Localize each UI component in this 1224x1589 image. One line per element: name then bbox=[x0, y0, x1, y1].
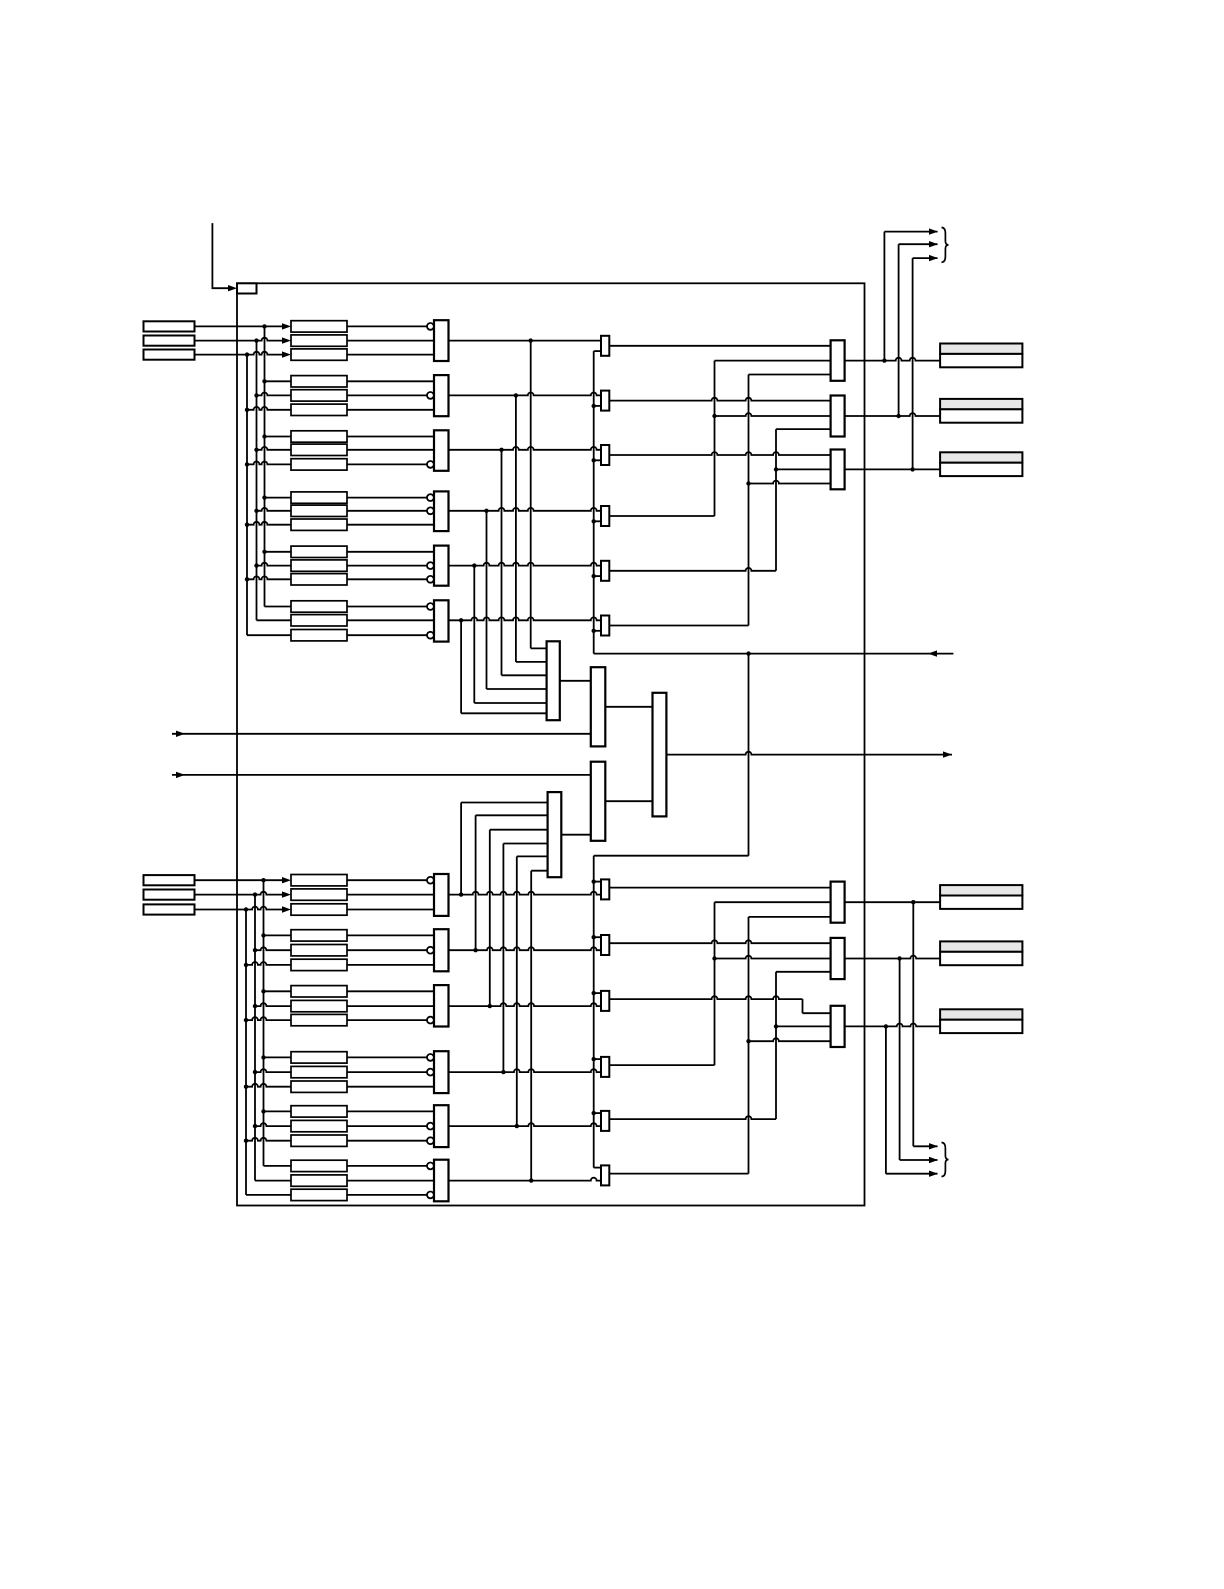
delay box TG2.3 bbox=[291, 404, 347, 415]
input label box T2 bbox=[144, 336, 195, 346]
collector line B1 bbox=[460, 803, 462, 895]
wire common stub B1 bbox=[594, 881, 601, 883]
wire jog down bbox=[802, 999, 804, 1013]
wire BG5 in1 bbox=[347, 1110, 434, 1112]
arrowhead brace B2 bbox=[929, 1157, 938, 1163]
vertical V3 T bbox=[775, 429, 777, 571]
junction common T3 bbox=[592, 458, 596, 462]
wire BG3 in2 bbox=[347, 1005, 434, 1007]
wire common stub T1 bbox=[594, 350, 601, 352]
mux box C3 bbox=[653, 693, 667, 817]
wire BG4 in3 bbox=[347, 1086, 434, 1088]
junction TG1 collector bbox=[529, 338, 533, 342]
wire BS2 out bbox=[609, 940, 830, 943]
wire bus1 to TG4 input1 bbox=[265, 497, 292, 499]
wire V2 to R.in3 T bbox=[749, 374, 831, 376]
arrowhead brace T3 bbox=[929, 255, 938, 261]
delay box TG2.1 bbox=[291, 376, 347, 387]
wire collector B1 stair bbox=[461, 802, 547, 804]
output label BL2 white bbox=[940, 952, 1022, 965]
collector line T1 bbox=[530, 341, 532, 649]
wire common stub T6 bbox=[594, 630, 601, 632]
output label BL2 gray bbox=[940, 941, 1022, 951]
output label TL3 white bbox=[940, 463, 1022, 476]
wire C2 out bbox=[605, 706, 652, 708]
driver box BR1 bbox=[831, 882, 845, 923]
arrowhead common in bbox=[928, 650, 937, 656]
wire BG5 in3 bbox=[347, 1140, 427, 1142]
wire TG6 in2 bbox=[347, 619, 434, 621]
wire BG1 in3 bbox=[347, 909, 434, 911]
gate BU3 bbox=[434, 985, 449, 1026]
arrowhead brace T2 bbox=[929, 241, 938, 247]
junction bus1 BG3 bbox=[261, 989, 265, 993]
vertical V2 T bbox=[748, 375, 750, 626]
delay box BG6.2 bbox=[291, 1175, 347, 1186]
input label box B1 bbox=[144, 875, 195, 885]
wire collector B2 stair bbox=[476, 814, 548, 816]
wire BG5 in2 bbox=[347, 1125, 427, 1127]
delay box BG2.1 bbox=[291, 930, 347, 941]
wire input T2 to first group bbox=[195, 338, 283, 341]
junction BG2 collector bbox=[473, 948, 477, 952]
bus line B3 bbox=[245, 910, 247, 1195]
junction common T4 bbox=[592, 519, 596, 523]
delay box BG4.1 bbox=[291, 1052, 347, 1063]
wire bus3 to TG3 input3 bbox=[247, 462, 291, 465]
gate BU6 bbox=[434, 1160, 449, 1202]
wire TG3 in3 bbox=[347, 463, 427, 465]
bus line B1 bbox=[263, 880, 265, 1166]
delay box BG3.2 bbox=[291, 1000, 347, 1011]
wire TG2 in2 bbox=[347, 394, 427, 396]
delay box TG3.3 bbox=[291, 459, 347, 470]
wire C1 out bbox=[560, 680, 591, 682]
bus line T3 bbox=[246, 355, 248, 636]
junction B3-bus bbox=[244, 907, 248, 911]
inverter bubble TG1.1 bbox=[427, 323, 434, 330]
gate TU4 bbox=[434, 491, 449, 531]
combiner box TS6 bbox=[601, 616, 609, 636]
inverter bubble BG4.2 bbox=[427, 1069, 434, 1076]
wire C5 out bbox=[561, 834, 591, 836]
gate BU5 bbox=[434, 1105, 449, 1147]
junction TG2 collector bbox=[514, 393, 518, 397]
junction V2 branch B bbox=[746, 1039, 750, 1043]
junction common T2 bbox=[592, 404, 596, 408]
wire TS6 out bbox=[609, 625, 748, 627]
junction bus1 BG5 bbox=[261, 1109, 265, 1113]
wire V3 branch T bbox=[776, 468, 831, 470]
wire BG4 in1 bbox=[347, 1056, 427, 1058]
wire BS4 out bbox=[609, 1064, 714, 1066]
junction bus1 BG2 bbox=[261, 933, 265, 937]
combiner box BS4 bbox=[601, 1057, 609, 1077]
junction bus1 TG5 bbox=[262, 550, 266, 554]
wire common stub B5 bbox=[594, 1112, 601, 1114]
brace drop B3 bbox=[885, 1026, 887, 1173]
delay box TG5.1 bbox=[291, 546, 347, 557]
junction BR2 tap bbox=[897, 956, 901, 960]
wire TG6 in3 bbox=[347, 634, 427, 636]
junction T3-bus bbox=[245, 352, 249, 356]
wire V3 to R.in3 B bbox=[776, 971, 831, 973]
wire input B1 to first group bbox=[195, 879, 283, 881]
wire bus3 to BG4 input3 bbox=[246, 1084, 291, 1087]
junction TG4 collector bbox=[484, 509, 488, 513]
wire TS1 out bbox=[609, 345, 830, 347]
driver box TR2 bbox=[831, 396, 845, 437]
junction TG5 collector bbox=[472, 563, 476, 567]
junction T1-bus bbox=[262, 324, 266, 328]
wire bus2 to TG3 input2 bbox=[257, 447, 292, 450]
driver box BR2 bbox=[831, 938, 845, 979]
collector line B2 bbox=[475, 815, 477, 950]
collector line B3 bbox=[489, 830, 491, 1006]
wire collector T3 stair bbox=[502, 674, 547, 676]
delay box BG5.3 bbox=[291, 1135, 347, 1146]
junction bus3 BG2 bbox=[244, 963, 248, 967]
wire bus1 to BG2 input1 bbox=[264, 934, 292, 936]
combiner box BS1 bbox=[601, 879, 609, 899]
junction V1 branch B bbox=[712, 956, 716, 960]
wire TG2 in1 bbox=[347, 380, 434, 382]
wire BG6 in1 bbox=[347, 1165, 427, 1167]
wire BG1 in2 bbox=[347, 894, 434, 896]
vertical V1 B bbox=[714, 902, 716, 1065]
output label BL3 white bbox=[940, 1020, 1022, 1033]
mux box C4 bbox=[591, 762, 606, 841]
junction V2 branch T bbox=[746, 481, 750, 485]
junction bus1 TG4 bbox=[262, 495, 266, 499]
combiner box TS2 bbox=[601, 391, 609, 411]
delay box TG6.1 bbox=[291, 601, 347, 612]
junction BR3 tap bbox=[884, 1024, 888, 1028]
wire collector T6 stair bbox=[461, 712, 546, 714]
arrowhead control 2 bbox=[176, 772, 185, 778]
wire V1 branch T bbox=[715, 413, 831, 416]
mux box C5 bbox=[548, 792, 562, 877]
wire V3 branch B bbox=[776, 1025, 831, 1027]
wire TR2 output bbox=[845, 413, 941, 416]
junction bus2 BG2 bbox=[253, 948, 257, 952]
corner tag box bbox=[237, 283, 257, 293]
wire common stub T4 bbox=[594, 520, 601, 522]
wire BG4 output bbox=[449, 1069, 602, 1072]
input label box T1 bbox=[144, 321, 195, 331]
collector line B4 bbox=[502, 844, 504, 1073]
junction bus2 TG4 bbox=[254, 509, 258, 513]
wire bus3 to BG6 input3 bbox=[246, 1194, 291, 1196]
wire TG5 in2 bbox=[347, 565, 427, 567]
delay box TG1.3 bbox=[291, 349, 347, 360]
wire bus1 to BG3 input1 bbox=[264, 990, 292, 992]
brace drop B2 bbox=[899, 959, 901, 1161]
junction bus3 TG4 bbox=[245, 523, 249, 527]
junction BG6 collector bbox=[529, 1178, 533, 1182]
inverter bubble BG4.1 bbox=[427, 1054, 434, 1061]
wire common stub T5 bbox=[594, 575, 601, 577]
wire brace T2 bbox=[899, 243, 938, 245]
wire bus2 to BG4 input2 bbox=[255, 1069, 291, 1072]
junction bus2 BG4 bbox=[253, 1070, 257, 1074]
wire bus3 to TG2 input3 bbox=[247, 407, 291, 410]
wire brace B3 bbox=[886, 1173, 938, 1175]
delay box BG1.3 bbox=[291, 904, 347, 915]
wire BG1 in1 bbox=[347, 879, 427, 881]
junction bus3 BG5 bbox=[244, 1139, 248, 1143]
arrowhead brace T1 bbox=[929, 228, 938, 234]
wire bus2 to TG6 input2 bbox=[257, 619, 292, 621]
delay box TG5.2 bbox=[291, 560, 347, 571]
arrowhead T1 bbox=[282, 323, 291, 329]
junction TG6 collector bbox=[459, 618, 463, 622]
delay box TG2.2 bbox=[291, 390, 347, 401]
driver box TR1 bbox=[831, 340, 845, 381]
collector line T4 bbox=[486, 511, 488, 689]
wire bus3 to BG3 input3 bbox=[246, 1017, 291, 1020]
junction bus2 TG3 bbox=[254, 448, 258, 452]
junction bus1 TG2 bbox=[262, 379, 266, 383]
delay box TG4.2 bbox=[291, 505, 347, 516]
wire TS3 out bbox=[609, 452, 830, 455]
wire input T3 to first group bbox=[195, 352, 283, 355]
gate TU1 bbox=[434, 320, 449, 361]
input label box B3 bbox=[144, 904, 195, 914]
wire BG5 output bbox=[449, 1123, 602, 1126]
combiner box TS1 bbox=[601, 336, 609, 356]
wire bus2 to BG3 input2 bbox=[255, 1003, 291, 1006]
wire TS4 out bbox=[609, 515, 714, 517]
gate TU3 bbox=[434, 430, 449, 471]
junction bus2 BG5 bbox=[253, 1124, 257, 1128]
input label box B2 bbox=[144, 890, 195, 900]
delay box TG3.2 bbox=[291, 444, 347, 455]
wire bus1 to TG5 input1 bbox=[265, 551, 292, 553]
collector line T6 bbox=[460, 620, 462, 713]
collector line B5 bbox=[516, 856, 518, 1126]
junction TR1 tap bbox=[882, 358, 886, 362]
wire TG5 output bbox=[449, 563, 602, 566]
delay box TG6.2 bbox=[291, 615, 347, 626]
wire brace B2 bbox=[900, 1159, 938, 1161]
wire: off-page entry drop bbox=[212, 223, 228, 288]
delay box BG6.1 bbox=[291, 1160, 347, 1171]
gate BU2 bbox=[434, 929, 449, 971]
junction V3 branch T bbox=[774, 467, 778, 471]
wire TG2 in3 bbox=[347, 409, 434, 411]
wire BG2 in2 bbox=[347, 949, 427, 951]
combiner box TS4 bbox=[601, 506, 609, 526]
delay box TG1.1 bbox=[291, 321, 347, 332]
wire bus2 to BG6 input2 bbox=[255, 1180, 291, 1182]
collector line T5 bbox=[473, 566, 475, 703]
bus line B2 bbox=[254, 895, 256, 1181]
common vertical (top half) bbox=[593, 351, 595, 653]
junction BR1 tap bbox=[911, 900, 915, 904]
wire TG6 in1 bbox=[347, 606, 427, 608]
wire collector T2 stair bbox=[516, 661, 547, 663]
gate TU2 bbox=[434, 375, 449, 416]
delay box TG6.3 bbox=[291, 630, 347, 641]
wire link left bbox=[594, 855, 749, 857]
inverter bubble BG1.1 bbox=[427, 877, 434, 884]
delay box BG4.3 bbox=[291, 1081, 347, 1092]
wire V1 to R.in2 B bbox=[715, 901, 831, 903]
wire TG4 in2 bbox=[347, 510, 427, 512]
junction bus3 TG5 bbox=[245, 577, 249, 581]
junction BG5 collector bbox=[515, 1124, 519, 1128]
wire brace T3 bbox=[913, 257, 938, 259]
wire bus1 to BG5 input1 bbox=[264, 1110, 292, 1112]
wire BG3 output bbox=[449, 1003, 602, 1006]
wire left control 2 bbox=[172, 774, 591, 776]
output label TL2 white bbox=[940, 409, 1022, 422]
arrowhead T3 bbox=[282, 351, 291, 357]
wire bus1 to TG6 input1 bbox=[265, 606, 292, 608]
wire bus1 to BG6 input1 bbox=[264, 1165, 292, 1167]
delay box TG3.1 bbox=[291, 431, 347, 442]
arrowhead brace B3 bbox=[929, 1171, 938, 1177]
mux box C1 bbox=[547, 641, 560, 720]
wire V1 branch B bbox=[715, 956, 831, 959]
inverter bubble TG4.2 bbox=[427, 507, 434, 514]
wire common out bbox=[594, 653, 954, 655]
junction bus3 BG3 bbox=[244, 1018, 248, 1022]
wire V2 to R.in3 B bbox=[749, 916, 831, 918]
wire input T1 to first group bbox=[195, 325, 283, 327]
brace drop T1 bbox=[883, 232, 885, 361]
collector line B6 bbox=[530, 871, 532, 1181]
wire BG4 in2 bbox=[347, 1071, 427, 1073]
wire bus2 to TG5 input2 bbox=[257, 563, 292, 566]
wire collector B4 stair bbox=[503, 843, 547, 845]
arrowhead B1 bbox=[282, 877, 291, 883]
junction TG3 collector bbox=[499, 448, 503, 452]
wire BR2 output bbox=[845, 956, 941, 959]
driver box BR3 bbox=[831, 1006, 845, 1047]
wire TG1 output bbox=[449, 340, 602, 342]
junction bus2 TG2 bbox=[254, 393, 258, 397]
wire bus2 to TG2 input2 bbox=[257, 393, 292, 396]
arrowhead control 1 bbox=[176, 731, 185, 737]
wire BG3 in3 bbox=[347, 1019, 427, 1021]
delay box BG2.3 bbox=[291, 959, 347, 970]
wire input B3 to first group bbox=[195, 907, 283, 910]
delay box BG3.3 bbox=[291, 1014, 347, 1025]
wire TG3 in2 bbox=[347, 449, 434, 451]
outer boundary box bbox=[237, 283, 865, 1205]
junction bus2 TG5 bbox=[254, 563, 258, 567]
junction bus2 BG3 bbox=[253, 1004, 257, 1008]
curly brace bottom bbox=[942, 1143, 949, 1177]
vertical V1 T bbox=[714, 361, 716, 516]
vertical V2 B bbox=[748, 917, 750, 1174]
combiner box TS3 bbox=[601, 445, 609, 465]
combiner box BS2 bbox=[601, 935, 609, 955]
gate TU5 bbox=[434, 546, 449, 586]
wire TG6 output bbox=[449, 617, 602, 620]
junction TR3 tap bbox=[910, 467, 914, 471]
brace drop T2 bbox=[898, 244, 900, 416]
wire BG2 in3 bbox=[347, 964, 434, 966]
inverter bubble TG6.3 bbox=[427, 632, 434, 639]
junction common B1 bbox=[592, 879, 596, 883]
wire BS3 out bbox=[609, 996, 802, 999]
wire TG2 output bbox=[449, 393, 602, 396]
wire TG4 output bbox=[449, 508, 602, 511]
output label TL1 white bbox=[940, 354, 1022, 367]
wire common stub T2 bbox=[594, 405, 601, 407]
wire brace T1 bbox=[884, 231, 937, 233]
wire collector B5 stair bbox=[517, 855, 548, 857]
gate BU1 bbox=[434, 874, 449, 916]
delay box BG4.2 bbox=[291, 1066, 347, 1077]
wire C3 out bbox=[666, 752, 952, 755]
mux box C2 bbox=[591, 667, 606, 746]
wire collector T4 stair bbox=[487, 688, 547, 690]
wire BS1 out bbox=[609, 887, 830, 889]
delay box TG5.3 bbox=[291, 574, 347, 585]
inverter bubble TG3.3 bbox=[427, 461, 434, 468]
junction common B3 bbox=[592, 991, 596, 995]
brace drop T3 bbox=[912, 258, 914, 469]
wire TG1 in1 bbox=[347, 325, 427, 327]
gate BU4 bbox=[434, 1051, 449, 1093]
common vertical (bottom half) bbox=[593, 856, 595, 1168]
wire collector B3 stair bbox=[490, 829, 548, 831]
junction bus1 BG4 bbox=[261, 1055, 265, 1059]
wire common stub T3 bbox=[594, 459, 601, 461]
bus line T2 bbox=[256, 341, 258, 621]
arrowhead into border bbox=[228, 285, 237, 291]
wire TG3 output bbox=[449, 447, 602, 450]
combiner box BS6 bbox=[601, 1165, 609, 1185]
delay box TG1.2 bbox=[291, 335, 347, 346]
wire BG2 output bbox=[449, 947, 602, 950]
wire bus3 to TG4 input3 bbox=[247, 522, 291, 525]
inverter bubble BG5.3 bbox=[427, 1137, 434, 1144]
wire BG6 in2 bbox=[347, 1180, 434, 1182]
arrowhead T2 bbox=[282, 337, 291, 343]
wire common stub B4 bbox=[594, 1058, 601, 1060]
wire V2 branch T bbox=[749, 481, 831, 484]
wire bus2 to BG2 input2 bbox=[255, 947, 291, 950]
gate TU6 bbox=[434, 600, 449, 641]
combiner box BS5 bbox=[601, 1111, 609, 1131]
inverter bubble TG6.1 bbox=[427, 603, 434, 610]
junction common B2 bbox=[592, 935, 596, 939]
junction bus3 TG3 bbox=[245, 462, 249, 466]
wire left control 1 bbox=[172, 733, 591, 735]
wire bus1 to BG4 input1 bbox=[264, 1056, 292, 1058]
output label TL3 gray bbox=[940, 452, 1022, 462]
delay box BG2.2 bbox=[291, 945, 347, 956]
junction B2-bus bbox=[253, 892, 257, 896]
junction B1-bus bbox=[261, 878, 265, 882]
wire TS2 out bbox=[609, 398, 830, 401]
wire BG6 output bbox=[449, 1178, 602, 1181]
delay box BG5.1 bbox=[291, 1106, 347, 1117]
inverter bubble BG3.3 bbox=[427, 1017, 434, 1024]
bus line T1 bbox=[264, 326, 266, 606]
wire common stub B6 bbox=[594, 1167, 601, 1169]
combiner box BS3 bbox=[601, 991, 609, 1011]
curly brace top bbox=[942, 228, 949, 263]
arrowhead B2 bbox=[282, 891, 291, 897]
wire input B2 to first group bbox=[195, 892, 283, 895]
wire bus1 to TG3 input1 bbox=[265, 436, 292, 438]
